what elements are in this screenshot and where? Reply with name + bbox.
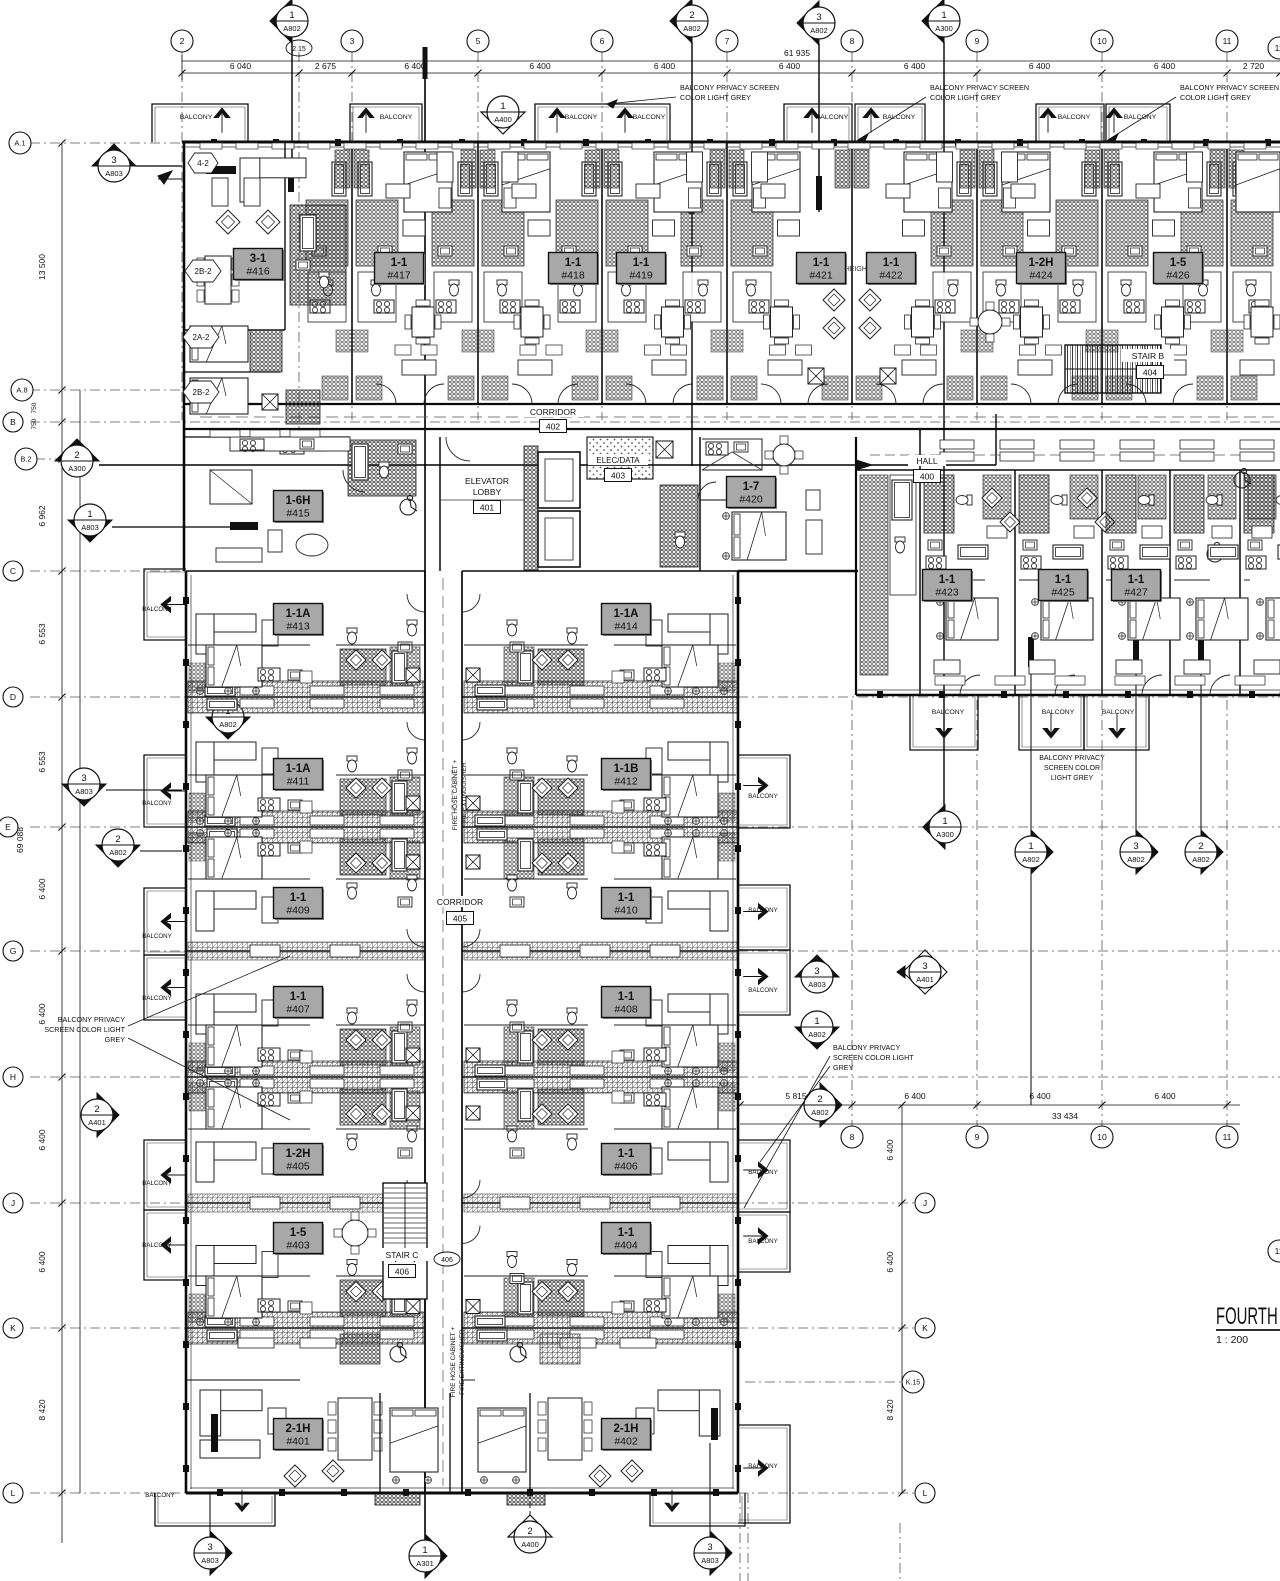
right wing party walls bbox=[919, 470, 921, 695]
unit 1-7 kitchen bbox=[702, 439, 762, 470]
svg-text:1-1: 1-1 bbox=[633, 257, 650, 269]
unit label 1-1 422 bbox=[868, 254, 917, 285]
svg-text:2: 2 bbox=[94, 1104, 99, 1115]
svg-text:SCREEN COLOR: SCREEN COLOR bbox=[1044, 765, 1100, 772]
grid bubble B bbox=[3, 412, 23, 432]
top wing party wall top closets bbox=[335, 150, 350, 188]
unit 1-6H bath cluster bbox=[348, 440, 416, 496]
section marker 3-A401 mid right open bbox=[903, 950, 947, 994]
svg-text:BALCONY: BALCONY bbox=[142, 606, 172, 613]
svg-text:BALCONY: BALCONY bbox=[1102, 709, 1135, 716]
svg-text:A802: A802 bbox=[219, 720, 237, 729]
section marker 1-A400 top bbox=[481, 112, 525, 134]
right wing bottom wall mullions bbox=[877, 691, 883, 698]
double height living diamonds units 421-422 bbox=[823, 289, 845, 311]
svg-text:1-1: 1-1 bbox=[813, 257, 830, 269]
svg-text:L: L bbox=[11, 1488, 16, 1498]
unit label 1-6H 415 bbox=[275, 492, 324, 523]
vertical leader lines to privacy bars right wing bbox=[1030, 667, 1032, 1105]
svg-text:2: 2 bbox=[527, 1526, 532, 1537]
east wall lower wing mullions bbox=[735, 597, 741, 604]
grid bubble 9 lower bbox=[966, 1126, 988, 1148]
svg-text:6 400: 6 400 bbox=[1029, 61, 1051, 71]
hex tag 2B-2 b bbox=[183, 381, 219, 403]
section marker 2-A300 left bbox=[55, 439, 99, 461]
grid bubble 11 partial right bbox=[1268, 37, 1280, 59]
svg-text:A401: A401 bbox=[916, 975, 934, 984]
unit label 1-7 420 bbox=[728, 478, 777, 509]
unit label 1-1A 414 bbox=[603, 605, 652, 636]
svg-text:G: G bbox=[10, 946, 17, 956]
top wing unit 352-478 bbox=[376, 152, 453, 404]
section marker 2-A802 top bbox=[670, 0, 692, 43]
svg-text:1-1: 1-1 bbox=[290, 991, 307, 1003]
svg-text:11: 11 bbox=[1223, 36, 1232, 46]
svg-text:#414: #414 bbox=[614, 621, 638, 633]
svg-text:CORRIDOR: CORRIDOR bbox=[437, 897, 483, 907]
svg-text:8: 8 bbox=[850, 1132, 855, 1142]
svg-text:#413: #413 bbox=[286, 621, 310, 633]
unit 402 dining table bbox=[548, 1398, 582, 1460]
svg-text:#407: #407 bbox=[286, 1004, 310, 1016]
unit label 1-1 421 bbox=[798, 254, 847, 285]
svg-text:2: 2 bbox=[180, 36, 185, 46]
privacy screen bar top-left unit bbox=[206, 166, 236, 174]
svg-text:GREY: GREY bbox=[105, 1035, 126, 1044]
svg-text:400: 400 bbox=[920, 471, 934, 481]
grid bubble 11 mid right partial bbox=[1268, 1240, 1280, 1262]
svg-text:K: K bbox=[922, 1323, 928, 1333]
svg-text:1-1: 1-1 bbox=[565, 257, 582, 269]
svg-text:1-1A: 1-1A bbox=[614, 608, 639, 620]
bottom section marker 3-A803 right bbox=[709, 1443, 711, 1532]
top wing unit 602-727 bbox=[626, 152, 703, 404]
svg-text:750: 750 bbox=[31, 402, 38, 413]
unit label 1-1 425 bbox=[1040, 571, 1089, 602]
stair C label bbox=[376, 1248, 428, 1261]
svg-text:A300: A300 bbox=[68, 464, 86, 473]
svg-text:ELEC/DATA: ELEC/DATA bbox=[596, 456, 640, 465]
privacy screen bar unit 409 bbox=[214, 846, 236, 853]
svg-text:2A-2: 2A-2 bbox=[193, 333, 210, 342]
top wing unit 478-602 bbox=[502, 152, 578, 404]
top balconies bbox=[152, 104, 248, 142]
svg-text:6 400: 6 400 bbox=[779, 61, 801, 71]
unit 1-7 walls bbox=[700, 499, 740, 501]
svg-text:COLOR LIGHT GREY: COLOR LIGHT GREY bbox=[680, 93, 751, 102]
svg-text:9: 9 bbox=[975, 36, 980, 46]
svg-text:6 400: 6 400 bbox=[885, 1251, 895, 1273]
svg-text:H: H bbox=[10, 1072, 16, 1082]
hex tag 2B-2 a bbox=[185, 260, 221, 282]
svg-text:BALCONY PRIVACY SCREEN: BALCONY PRIVACY SCREEN bbox=[930, 83, 1029, 92]
grid bubble 2 bbox=[171, 30, 193, 52]
section marker 1-A803 left bbox=[68, 520, 112, 542]
elec data room bbox=[587, 437, 653, 479]
svg-text:GREY: GREY bbox=[833, 1063, 854, 1072]
grid bubble C bbox=[3, 561, 23, 581]
svg-text:K: K bbox=[10, 1323, 16, 1333]
unit 1-7 dining bbox=[773, 444, 795, 466]
svg-text:#405: #405 bbox=[286, 1161, 310, 1173]
svg-text:6 400: 6 400 bbox=[904, 1091, 926, 1101]
privacy screen bar near grid 2.15 bbox=[288, 158, 294, 192]
grid bubble J bbox=[3, 1193, 23, 1213]
svg-text:8: 8 bbox=[850, 36, 855, 46]
svg-text:6 400: 6 400 bbox=[529, 61, 551, 71]
svg-text:10: 10 bbox=[1097, 1132, 1107, 1142]
unit label 1-1 407 bbox=[275, 988, 324, 1019]
svg-text:A803: A803 bbox=[105, 169, 123, 178]
svg-text:6 553: 6 553 bbox=[37, 751, 47, 773]
svg-text:#425: #425 bbox=[1051, 587, 1075, 599]
bottom wall mullions bbox=[217, 1489, 223, 1496]
svg-text:A802: A802 bbox=[283, 24, 301, 33]
privacy bar unit 401 bbox=[211, 1414, 218, 1452]
svg-text:J: J bbox=[11, 1198, 15, 1208]
unit 401 dining table bbox=[338, 1398, 372, 1460]
svg-text:BALCONY PRIVACY SCREEN: BALCONY PRIVACY SCREEN bbox=[1180, 83, 1279, 92]
svg-text:2: 2 bbox=[74, 450, 79, 461]
svg-text:A803: A803 bbox=[75, 787, 93, 796]
unit label 1-5 403 bbox=[275, 1224, 324, 1255]
svg-text:1-1A: 1-1A bbox=[286, 763, 311, 775]
right wing bottom sill fixtures bbox=[935, 676, 965, 685]
svg-text:A802: A802 bbox=[810, 26, 828, 35]
svg-text:5: 5 bbox=[476, 36, 481, 46]
svg-text:11: 11 bbox=[1275, 43, 1280, 53]
privacy screen bar unit 411 bbox=[214, 786, 236, 793]
unit label 1-2H 405 bbox=[275, 1145, 324, 1176]
top balcony arrows and labels bbox=[214, 108, 230, 118]
svg-text:13 500: 13 500 bbox=[37, 254, 47, 280]
top wing outer wall bbox=[182, 141, 1280, 144]
svg-text:2B-2: 2B-2 bbox=[195, 267, 212, 276]
svg-text:LOBBY: LOBBY bbox=[473, 487, 502, 497]
stair C oval tag bbox=[434, 1252, 460, 1266]
svg-text:#415: #415 bbox=[286, 508, 310, 520]
lower wing unit row 413-414 bbox=[196, 594, 425, 694]
svg-text:2: 2 bbox=[115, 834, 120, 845]
lower wing unit row 405-406 bbox=[196, 1080, 425, 1198]
unit label 1-1 404 bbox=[603, 1224, 652, 1255]
svg-text:1: 1 bbox=[942, 816, 947, 827]
top wing sofas near party walls bbox=[386, 184, 410, 198]
grid bubble 11 bbox=[1216, 30, 1238, 52]
svg-text:A802: A802 bbox=[811, 1108, 829, 1117]
section marker 3-A802 top bbox=[797, 1, 819, 45]
right wing unit 1240-1280 bbox=[1244, 475, 1280, 695]
privacy bar unit 402 bbox=[711, 1408, 718, 1440]
grid bubble 3 bbox=[341, 30, 363, 52]
unit label 1-1 417 bbox=[376, 254, 425, 285]
svg-text:1-1A: 1-1A bbox=[286, 608, 311, 620]
unit 402 bedroom bed bbox=[478, 1408, 526, 1472]
top wall window mullions bbox=[211, 139, 217, 146]
svg-text:8 420: 8 420 bbox=[885, 1399, 895, 1421]
svg-text:SCREEN COLOR LIGHT: SCREEN COLOR LIGHT bbox=[44, 1025, 125, 1034]
svg-text:BALCONY: BALCONY bbox=[142, 995, 172, 1002]
svg-text:1-1: 1-1 bbox=[618, 991, 635, 1003]
svg-text:FOURTH F: FOURTH F bbox=[1216, 1303, 1280, 1330]
svg-text:#403: #403 bbox=[286, 1240, 310, 1252]
grid bubble A.8 bbox=[11, 379, 33, 401]
hex tag 4-2 bbox=[188, 153, 218, 173]
unit 402 diamonds bbox=[589, 1465, 611, 1487]
lower wing unit row 409-410 bbox=[196, 830, 425, 947]
svg-text:#410: #410 bbox=[614, 905, 638, 917]
unit label 1-1 408 bbox=[603, 988, 652, 1019]
svg-text:BALCONY: BALCONY bbox=[633, 114, 666, 121]
top wing unit 852-977 bbox=[876, 152, 953, 404]
svg-text:A802: A802 bbox=[109, 848, 127, 857]
section marker 1-A802 mid right bbox=[795, 1027, 839, 1049]
svg-text:HALL: HALL bbox=[916, 456, 938, 466]
svg-text:6 400: 6 400 bbox=[37, 878, 47, 900]
svg-text:3: 3 bbox=[814, 966, 819, 977]
svg-text:6 962: 6 962 bbox=[37, 505, 47, 527]
svg-text:BALCONY: BALCONY bbox=[145, 1492, 175, 1499]
svg-text:401: 401 bbox=[480, 502, 494, 512]
west wall window mullions bbox=[183, 597, 189, 604]
unit label 1-1A 411 bbox=[275, 760, 324, 791]
svg-text:1: 1 bbox=[1028, 841, 1033, 852]
grid bubble 11 lower bbox=[1216, 1126, 1238, 1148]
svg-text:BALCONY: BALCONY bbox=[883, 114, 916, 121]
svg-text:1: 1 bbox=[500, 101, 505, 112]
svg-text:1-7: 1-7 bbox=[743, 481, 760, 493]
svg-text:3: 3 bbox=[350, 36, 355, 46]
grid bubble 7 bbox=[716, 30, 738, 52]
svg-text:6 400: 6 400 bbox=[37, 1003, 47, 1025]
unit 3-1 interior walls bbox=[284, 142, 286, 330]
wheelchair right wing bbox=[1234, 472, 1250, 488]
lower wing unit row 411-412 bbox=[196, 722, 425, 824]
section marker 3-A802 right wing bbox=[1136, 830, 1158, 874]
section marker 1-A802 right wing bbox=[1031, 830, 1053, 874]
svg-text:B.2: B.2 bbox=[20, 455, 31, 464]
unit label 2-1H 402 bbox=[603, 1420, 652, 1451]
stair C bbox=[383, 1183, 427, 1299]
svg-text:BALCONY: BALCONY bbox=[142, 1180, 172, 1187]
svg-text:#421: #421 bbox=[809, 270, 833, 282]
stair B label bbox=[1122, 349, 1174, 362]
svg-text:LIGHT GREY: LIGHT GREY bbox=[1051, 775, 1094, 782]
unit 401-402 interior walls bbox=[186, 1379, 300, 1381]
svg-text:BALCONY: BALCONY bbox=[1058, 114, 1091, 121]
svg-text:3: 3 bbox=[111, 155, 116, 166]
unit 3-1 bedrooms bbox=[190, 326, 248, 362]
grid bubble E bbox=[0, 817, 18, 837]
section marker 2-A802 right wing bbox=[1201, 830, 1223, 874]
svg-text:405: 405 bbox=[453, 913, 467, 923]
unit label 1-1 423 bbox=[924, 571, 973, 602]
svg-text:#426: #426 bbox=[1166, 270, 1190, 282]
svg-text:6 400: 6 400 bbox=[904, 61, 926, 71]
svg-text:#424: #424 bbox=[1029, 270, 1053, 282]
svg-text:8 420: 8 420 bbox=[37, 1399, 47, 1421]
svg-text:BALCONY: BALCONY bbox=[816, 114, 849, 121]
svg-text:BALCONY: BALCONY bbox=[380, 114, 413, 121]
svg-text:1: 1 bbox=[289, 10, 294, 21]
unit 402 living bbox=[658, 1390, 720, 1411]
svg-text:A802: A802 bbox=[808, 1030, 826, 1039]
svg-text:4-2: 4-2 bbox=[197, 159, 209, 168]
unit label 2-1H 401 bbox=[275, 1420, 324, 1451]
unit 3-1 bath strip bbox=[290, 205, 346, 305]
grid bubble G bbox=[3, 941, 23, 961]
svg-text:404: 404 bbox=[1143, 367, 1157, 377]
svg-text:1: 1 bbox=[941, 10, 946, 21]
top wing unit 1102-1227 bbox=[1126, 152, 1203, 404]
unit label 1-1 427 bbox=[1113, 571, 1162, 602]
svg-text:#418: #418 bbox=[561, 270, 585, 282]
lower wing outer walls bbox=[185, 571, 188, 1493]
corridor 402 walls bbox=[184, 403, 1280, 405]
right wing balconies bbox=[910, 695, 978, 750]
svg-text:#401: #401 bbox=[286, 1436, 310, 1448]
svg-text:BALCONY: BALCONY bbox=[748, 793, 778, 800]
bottom section marker 3-A803 left bbox=[209, 1493, 211, 1532]
svg-text:#404: #404 bbox=[614, 1240, 638, 1252]
unit 1-6H interior bbox=[280, 440, 304, 454]
bottom bay window sills bbox=[375, 1494, 420, 1505]
svg-text:1-2H: 1-2H bbox=[286, 1148, 311, 1160]
grid bubble K.15 right bbox=[902, 1371, 924, 1393]
svg-text:3: 3 bbox=[207, 1542, 212, 1553]
top wing bath-kitchen strips bbox=[306, 200, 398, 322]
svg-text:6: 6 bbox=[600, 36, 605, 46]
svg-text:#420: #420 bbox=[739, 494, 763, 506]
svg-text:#422: #422 bbox=[879, 270, 903, 282]
svg-text:1 : 200: 1 : 200 bbox=[1216, 1334, 1248, 1346]
svg-text:406: 406 bbox=[441, 1257, 453, 1264]
unit label 3-1 416 bbox=[235, 250, 284, 281]
svg-text:BALCONY: BALCONY bbox=[748, 1238, 778, 1245]
svg-text:A803: A803 bbox=[201, 1556, 219, 1565]
top wing corridor-side closets bbox=[322, 376, 348, 400]
svg-text:1: 1 bbox=[422, 1545, 427, 1556]
unit 401 bedroom bed bbox=[390, 1408, 438, 1472]
svg-text:6 400: 6 400 bbox=[654, 61, 676, 71]
svg-text:BALCONY: BALCONY bbox=[748, 907, 778, 914]
svg-text:#408: #408 bbox=[614, 1004, 638, 1016]
svg-text:B: B bbox=[10, 417, 16, 427]
unit 1-7 bed bbox=[732, 512, 786, 560]
svg-text:1-1: 1-1 bbox=[1055, 574, 1072, 586]
svg-text:BALCONY: BALCONY bbox=[748, 1463, 778, 1470]
section marker 1-A300 mid right end bbox=[923, 805, 945, 849]
lower wing floor party walls bbox=[186, 570, 425, 572]
svg-text:#411: #411 bbox=[287, 776, 310, 788]
svg-text:A300: A300 bbox=[935, 24, 953, 33]
stair B bbox=[1065, 345, 1161, 393]
top wing party walls bbox=[351, 142, 353, 404]
svg-text:1-1: 1-1 bbox=[618, 1227, 635, 1239]
svg-text:3: 3 bbox=[816, 12, 821, 23]
right wing unit 1015-1102 bbox=[1019, 475, 1115, 695]
elevator core hatched wall bbox=[524, 446, 538, 570]
svg-text:6 400: 6 400 bbox=[1154, 1091, 1176, 1101]
svg-text:A802: A802 bbox=[1192, 855, 1210, 864]
column tag 2.15 bbox=[286, 40, 312, 56]
svg-text:2 675: 2 675 bbox=[315, 61, 337, 71]
grid bubble 8 lower bbox=[841, 1126, 863, 1148]
lower wing east balconies bbox=[738, 755, 790, 828]
svg-text:SCREEN COLOR LIGHT: SCREEN COLOR LIGHT bbox=[833, 1053, 914, 1062]
svg-text:BALCONY: BALCONY bbox=[748, 987, 778, 994]
svg-text:10: 10 bbox=[1097, 36, 1107, 46]
right wing unit 1102-1170 bbox=[1106, 475, 1180, 695]
svg-text:#416: #416 bbox=[246, 266, 270, 278]
corridor 402 label bbox=[522, 406, 584, 417]
svg-text:9: 9 bbox=[975, 1132, 980, 1142]
svg-text:1-6H: 1-6H bbox=[286, 495, 311, 507]
svg-text:E: E bbox=[5, 822, 11, 832]
svg-text:A803: A803 bbox=[808, 980, 826, 989]
svg-text:1: 1 bbox=[87, 509, 92, 520]
unit label 1-1 409 bbox=[275, 889, 324, 920]
svg-text:A401: A401 bbox=[88, 1118, 106, 1127]
right wing bottom wall bbox=[856, 694, 1280, 697]
svg-text:J: J bbox=[923, 1198, 927, 1208]
svg-text:#427: #427 bbox=[1124, 587, 1148, 599]
unit 426 dining bbox=[978, 310, 1002, 334]
svg-text:3: 3 bbox=[1133, 841, 1138, 852]
svg-text:6 400: 6 400 bbox=[1029, 1091, 1051, 1101]
lobby corridor lines bbox=[440, 499, 524, 501]
grid bubble H bbox=[3, 1067, 23, 1087]
svg-text:COLOR LIGHT GREY: COLOR LIGHT GREY bbox=[1180, 93, 1251, 102]
section marker 1-A300 top bbox=[922, 0, 944, 43]
top wing window sill marks bbox=[200, 143, 222, 149]
svg-text:COLOR LIGHT GREY: COLOR LIGHT GREY bbox=[930, 93, 1001, 102]
grid bubble 10 lower bbox=[1091, 1126, 1113, 1148]
section marker 2-A802 left lower bbox=[96, 845, 140, 867]
grid bubble L bbox=[3, 1483, 23, 1503]
svg-text:BALCONY: BALCONY bbox=[142, 933, 172, 940]
svg-text:3-1: 3-1 bbox=[250, 253, 267, 265]
svg-text:2-1H: 2-1H bbox=[286, 1423, 311, 1435]
top wing unit 727-852 bbox=[752, 152, 829, 404]
grid bubble 10 bbox=[1091, 30, 1113, 52]
mid section walls bbox=[439, 437, 441, 571]
section marker 1-A802 top bbox=[270, 0, 292, 43]
svg-text:750: 750 bbox=[31, 418, 38, 429]
unit label 1-1B 412 bbox=[603, 760, 652, 791]
svg-text:BALCONY: BALCONY bbox=[565, 114, 598, 121]
grid bubble A.1 bbox=[9, 132, 31, 154]
svg-text:#419: #419 bbox=[629, 270, 653, 282]
bottom section marker 1-A301 bbox=[425, 1534, 447, 1578]
top wing window band bbox=[182, 146, 1280, 148]
right wing unit 1170-1240 bbox=[1174, 475, 1248, 695]
unit 1-7 sofa bbox=[806, 520, 822, 554]
lower wing unit row 403-404 bbox=[196, 1226, 425, 1326]
mid section corridor-side fixtures bbox=[210, 430, 240, 437]
elec data shaft bbox=[656, 441, 673, 458]
wheelchair lobby bbox=[400, 499, 416, 515]
svg-text:2B-2: 2B-2 bbox=[193, 388, 210, 397]
svg-text:2.15: 2.15 bbox=[292, 46, 306, 53]
svg-text:1-5: 1-5 bbox=[1170, 257, 1187, 269]
svg-text:BALCONY: BALCONY bbox=[142, 800, 172, 807]
svg-text:406: 406 bbox=[395, 1266, 409, 1276]
section cut line 1-A301 vertical bbox=[424, 77, 426, 1556]
svg-text:#417: #417 bbox=[387, 270, 411, 282]
unit label 1-2H 424 bbox=[1018, 254, 1067, 285]
unit 403 round dining bbox=[342, 1220, 368, 1246]
